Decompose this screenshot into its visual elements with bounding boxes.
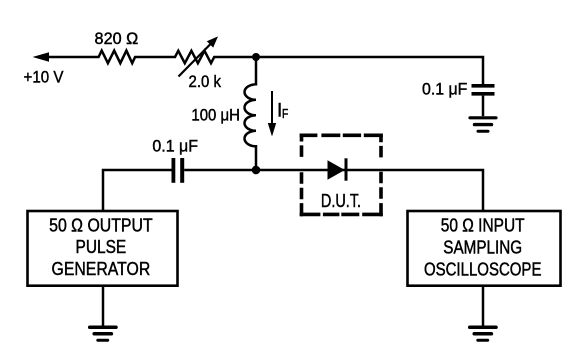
svg-text:PULSE: PULSE — [76, 237, 127, 257]
svg-text:100 μH: 100 μH — [191, 106, 240, 125]
svg-text:GENERATOR: GENERATOR — [52, 259, 151, 279]
svg-text:50 Ω INPUT: 50 Ω INPUT — [441, 216, 525, 236]
svg-text:2.0 k: 2.0 k — [189, 72, 222, 91]
svg-text:OSCILLOSCOPE: OSCILLOSCOPE — [424, 260, 542, 280]
svg-text:F: F — [282, 106, 288, 121]
svg-text:+10 V: +10 V — [24, 67, 65, 86]
svg-text:820 Ω: 820 Ω — [95, 29, 139, 48]
svg-text:D.U.T.: D.U.T. — [321, 191, 361, 211]
svg-text:SAMPLING: SAMPLING — [443, 237, 522, 257]
svg-text:0.1 μF: 0.1 μF — [422, 79, 467, 98]
svg-text:0.1 μF: 0.1 μF — [152, 136, 198, 155]
svg-text:50 Ω OUTPUT: 50 Ω OUTPUT — [49, 216, 153, 236]
